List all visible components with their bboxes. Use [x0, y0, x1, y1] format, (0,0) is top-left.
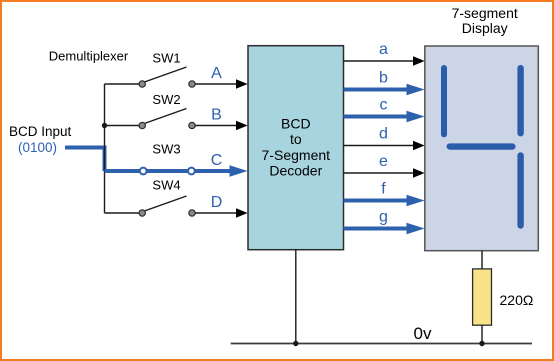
ground rail 0v — [231, 343, 532, 345]
segment f (lit) — [441, 65, 447, 137]
pin arrow D — [236, 208, 248, 217]
decoder U1: BCD to 7-Segment Decoder — [248, 46, 344, 250]
svg-text:0v: 0v — [414, 324, 432, 343]
svg-text:7-segment: 7-segment — [452, 5, 518, 21]
svg-text:SW4: SW4 — [152, 178, 180, 193]
output wire c (blue, active) — [344, 115, 409, 119]
svg-text:g: g — [379, 209, 388, 226]
svg-text:A: A — [211, 65, 222, 82]
wire SW1 to decoder — [195, 83, 237, 85]
pin arrow g (blue) — [407, 223, 425, 234]
svg-text:C: C — [211, 152, 223, 169]
junction bus / SW2 — [102, 123, 107, 128]
wire bus to SW1 — [105, 83, 141, 85]
output wire f (blue, active) — [344, 199, 409, 203]
junction decoder / ground rail — [293, 341, 298, 346]
svg-text:7-Segment: 7-Segment — [262, 147, 331, 163]
pin arrow B — [236, 121, 248, 130]
segment g (lit) — [447, 143, 516, 149]
svg-text:BCD Input: BCD Input — [9, 124, 72, 139]
pin arrow c (blue) — [407, 111, 425, 122]
svg-text:a: a — [379, 41, 388, 58]
wire BCD input (blue) — [65, 148, 105, 172]
wire resistor to ground — [481, 325, 483, 343]
switch SW3 (closed) — [140, 168, 195, 175]
resistor R1 — [473, 269, 492, 325]
segment b (lit) — [517, 65, 523, 136]
wire SW2 to decoder — [195, 125, 237, 127]
pin arrow f (blue) — [407, 195, 425, 206]
7-segment display DS1 — [425, 46, 539, 251]
pin arrow C (blue) — [230, 165, 248, 176]
switch SW1 (open) — [139, 67, 195, 87]
wire bus to SW2 — [105, 125, 141, 127]
wire decoder to ground — [295, 250, 297, 344]
svg-text:e: e — [379, 153, 388, 170]
svg-text:(0100): (0100) — [18, 140, 57, 155]
svg-text:B: B — [211, 107, 222, 124]
svg-text:f: f — [381, 181, 386, 198]
output wire b (blue, active) — [344, 88, 409, 92]
svg-text:Display: Display — [462, 20, 508, 36]
svg-text:d: d — [379, 126, 388, 143]
svg-text:SW1: SW1 — [152, 51, 180, 66]
wire SW4 to decoder — [195, 212, 237, 214]
pin arrow e — [413, 168, 425, 177]
svg-text:to: to — [290, 131, 302, 147]
wire bus to SW4 — [105, 212, 141, 214]
svg-text:D: D — [211, 194, 223, 211]
segment c (lit) — [517, 152, 523, 228]
wire demux bus — [104, 84, 106, 213]
pin arrow b (blue) — [407, 84, 425, 95]
svg-text:SW3: SW3 — [152, 142, 180, 157]
output wire a — [344, 60, 415, 62]
svg-text:c: c — [380, 97, 388, 114]
pin arrow d — [413, 141, 425, 150]
switch SW4 (open) — [139, 196, 195, 216]
wire SW3 closed path (C, blue) — [105, 169, 232, 173]
output wire e — [344, 172, 415, 174]
output wire d — [344, 145, 415, 147]
switch SW2 (open) — [139, 109, 195, 129]
pin arrow A — [236, 79, 248, 88]
svg-text:Decoder: Decoder — [269, 162, 322, 178]
svg-text:Demultiplexer: Demultiplexer — [49, 49, 129, 64]
svg-text:220Ω: 220Ω — [500, 292, 534, 308]
label 7-segment Display — [452, 5, 518, 36]
svg-text:BCD: BCD — [281, 116, 311, 132]
svg-text:SW2: SW2 — [152, 92, 180, 107]
junction resistor / ground rail — [479, 341, 484, 346]
pin arrow a — [413, 56, 425, 65]
wire display to resistor — [481, 251, 483, 269]
svg-text:b: b — [379, 70, 388, 87]
output wire g (blue, active) — [344, 227, 409, 231]
